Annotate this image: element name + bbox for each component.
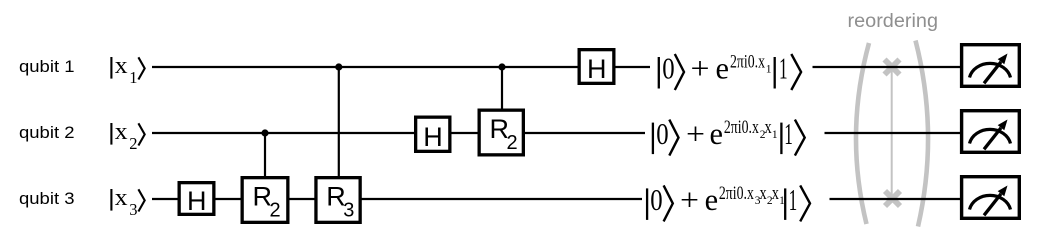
svg-text:e: e [710,116,724,151]
svg-text:H: H [423,122,443,152]
svg-text:2: 2 [129,134,137,153]
svg-text:x: x [115,185,128,211]
svg-text:2πi0.x: 2πi0.x [719,183,754,204]
svg-text:qubit 1: qubit 1 [19,57,75,76]
svg-text:e: e [705,182,719,217]
svg-text:reordering: reordering [848,11,939,32]
svg-text:1: 1 [779,51,788,86]
svg-text:1: 1 [789,182,798,217]
svg-text:1: 1 [766,64,772,76]
svg-text:0: 0 [656,116,668,151]
svg-text:1: 1 [772,129,778,141]
svg-text:2πi0.x: 2πi0.x [724,117,759,138]
svg-text:0: 0 [662,51,674,86]
svg-text:1: 1 [784,116,793,151]
svg-text:+: + [691,51,710,86]
svg-text:3: 3 [129,200,137,219]
svg-text:qubit 3: qubit 3 [19,189,75,208]
svg-text:+: + [680,182,699,217]
svg-text:e: e [716,51,730,86]
svg-text:2: 2 [270,200,281,222]
svg-text:x: x [115,119,128,145]
svg-text:H: H [587,54,607,84]
svg-text:2πi0.x: 2πi0.x [730,52,765,73]
svg-text:+: + [686,116,705,151]
svg-text:1: 1 [129,68,137,87]
svg-text:qubit 2: qubit 2 [19,123,75,142]
svg-text:x: x [115,53,128,79]
svg-text:2: 2 [507,132,518,154]
svg-text:3: 3 [343,200,354,222]
svg-text:0: 0 [650,182,662,217]
svg-text:H: H [187,186,207,216]
